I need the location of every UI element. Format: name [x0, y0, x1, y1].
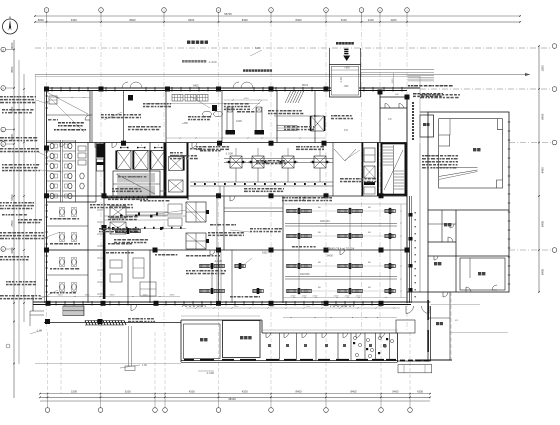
svg-text:38100: 38100 — [228, 397, 236, 401]
svg-text:+450: +450 — [182, 121, 188, 125]
svg-text:5100: 5100 — [341, 18, 347, 22]
svg-text:2100: 2100 — [368, 18, 374, 22]
svg-text:8400: 8400 — [541, 269, 545, 275]
svg-text:1800: 1800 — [160, 190, 166, 193]
svg-text:2100: 2100 — [291, 295, 297, 297]
svg-text:8400: 8400 — [242, 18, 248, 22]
svg-text:8400: 8400 — [351, 389, 357, 393]
svg-text:2100: 2100 — [345, 295, 351, 297]
svg-text:56700: 56700 — [224, 12, 232, 16]
svg-text:4200: 4200 — [417, 389, 423, 393]
svg-text:2100: 2100 — [313, 295, 319, 297]
svg-text:-1.00: -1.00 — [36, 329, 42, 333]
svg-text:4200: 4200 — [189, 389, 195, 393]
svg-text:2X8645 (78.4+a) 7(1-2)4: 2X8645 (78.4+a) 7(1-2)4 — [326, 247, 355, 251]
svg-text:3500: 3500 — [10, 66, 14, 73]
svg-text:4200: 4200 — [391, 18, 397, 22]
svg-text:2100: 2100 — [302, 295, 308, 297]
svg-text:3300: 3300 — [85, 295, 91, 297]
svg-text:3300: 3300 — [170, 295, 176, 297]
svg-text:8400: 8400 — [541, 113, 545, 119]
svg-text:M02: M02 — [193, 84, 199, 88]
svg-text:-4.50: -4.50 — [340, 77, 343, 83]
svg-text:N: N — [9, 16, 11, 20]
svg-text:2100: 2100 — [356, 295, 362, 297]
svg-text:-1.000: -1.000 — [206, 371, 214, 375]
svg-text:5.25: 5.25 — [255, 47, 260, 50]
svg-text:3300: 3300 — [58, 295, 64, 297]
svg-text:-1.000: -1.000 — [225, 152, 233, 156]
svg-text:400X200: 400X200 — [300, 273, 310, 276]
svg-text:+600: +600 — [344, 67, 350, 70]
svg-text:8600: 8600 — [130, 18, 136, 22]
svg-text:4000: 4000 — [10, 247, 14, 254]
svg-text:5100: 5100 — [125, 389, 131, 393]
svg-text:1500: 1500 — [541, 65, 545, 71]
svg-text:C.F: C.F — [388, 118, 392, 121]
svg-text:1500: 1500 — [392, 78, 394, 84]
svg-text:8400: 8400 — [541, 167, 545, 173]
svg-text:8400: 8400 — [393, 389, 399, 393]
svg-text:2500: 2500 — [10, 220, 14, 227]
svg-text:8400: 8400 — [188, 18, 194, 22]
svg-text:1500: 1500 — [71, 389, 77, 393]
svg-text:3300: 3300 — [110, 295, 116, 297]
svg-text:MC3: MC3 — [302, 83, 308, 87]
svg-text:4200: 4200 — [242, 389, 248, 393]
svg-text:8400: 8400 — [296, 389, 302, 393]
svg-text:8400: 8400 — [296, 18, 302, 22]
svg-text:8000: 8000 — [38, 18, 44, 22]
svg-text:8400: 8400 — [327, 254, 333, 258]
svg-text:-600: -600 — [344, 85, 349, 88]
svg-text:8400: 8400 — [541, 221, 545, 227]
svg-text:-1.000: -1.000 — [208, 60, 217, 64]
svg-text:4100: 4100 — [244, 98, 250, 100]
svg-text:4200: 4200 — [236, 119, 242, 123]
svg-text:6300: 6300 — [262, 252, 268, 255]
svg-text:2100: 2100 — [334, 295, 340, 297]
svg-text:-1.000: -1.000 — [214, 259, 222, 263]
svg-text:3400: 3400 — [71, 18, 77, 22]
svg-text:400X200: 400X200 — [320, 220, 330, 223]
svg-text:8000: 8000 — [10, 42, 14, 49]
svg-text:1.50: 1.50 — [142, 364, 147, 367]
svg-text:5000: 5000 — [10, 194, 14, 201]
